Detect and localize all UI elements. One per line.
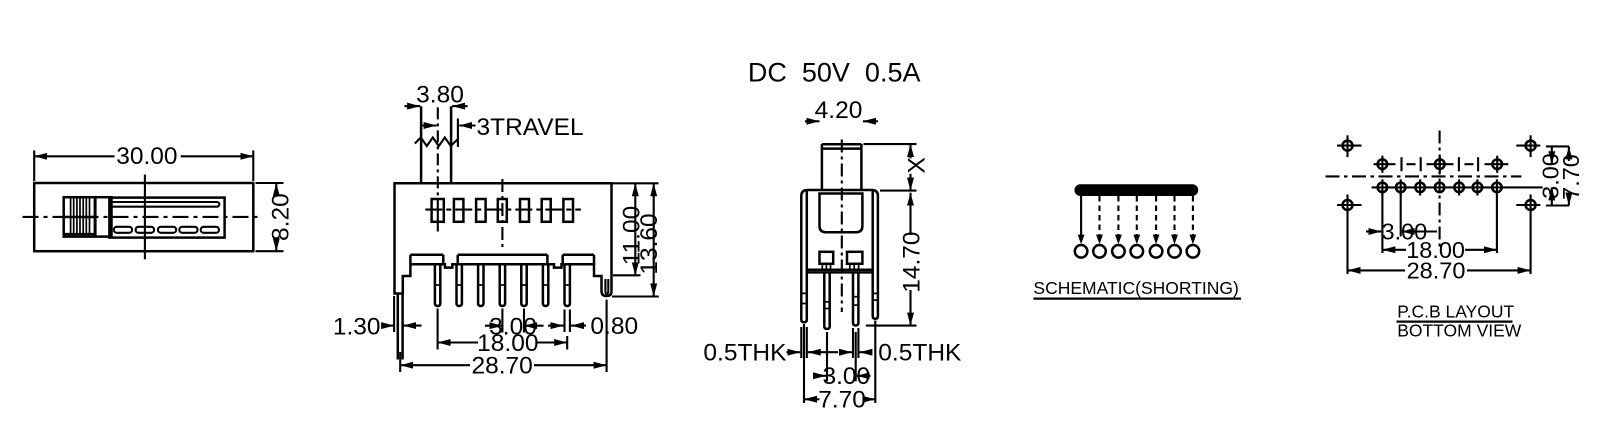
top row line and ticks <box>1374 156 1509 173</box>
body frame outer <box>801 190 878 320</box>
svg-text:0.80: 0.80 <box>590 313 638 340</box>
vertical center line <box>144 175 146 260</box>
dimension 14.70 <box>909 193 911 235</box>
svg-text:7.70: 7.70 <box>1558 154 1584 200</box>
stem break zigzag <box>415 138 458 147</box>
dimension 28.70 (pcb) <box>1348 269 1406 271</box>
svg-text:3.80: 3.80 <box>416 81 464 108</box>
svg-text:P.C.B LAYOUT: P.C.B LAYOUT <box>1397 301 1514 321</box>
knob divider <box>94 197 97 236</box>
svg-text:0.5THK: 0.5THK <box>703 339 787 366</box>
corner mounting holes <box>1343 141 1536 210</box>
dimension 13.60 <box>612 295 659 297</box>
svg-text:0.5THK: 0.5THK <box>878 339 962 366</box>
0.5THK left <box>800 327 802 358</box>
pins (side) <box>824 272 829 329</box>
bottom row line and ticks <box>1372 179 1543 195</box>
knob stem <box>420 106 423 183</box>
svg-text:8.20: 8.20 <box>268 193 295 241</box>
svg-text:DC 50V 0.5A: DC 50V 0.5A <box>748 58 921 88</box>
leg bottoms rounded <box>801 320 807 323</box>
bottom flange tops <box>410 255 594 264</box>
dimension X <box>864 143 917 145</box>
svg-text:30.00: 30.00 <box>116 143 177 170</box>
svg-text:13.60: 13.60 <box>636 213 663 274</box>
dimension 8.20 <box>256 182 284 184</box>
dimension 18.00 <box>437 309 439 350</box>
dimension 7.70 (side) <box>803 324 805 403</box>
0.5THK right <box>852 328 854 358</box>
body bottom belt <box>807 268 873 271</box>
terminal ticks <box>822 264 858 270</box>
terminal windows row <box>432 199 573 222</box>
common bar <box>1075 184 1199 196</box>
svg-text:3TRAVEL: 3TRAVEL <box>477 114 584 141</box>
windows center line <box>425 209 581 211</box>
svg-text:7.70: 7.70 <box>818 386 866 413</box>
dimension 11.00 <box>612 182 659 184</box>
bottom hole row: 7 holes <box>1378 183 1502 193</box>
svg-text:28.70: 28.70 <box>471 352 532 379</box>
knob block <box>64 197 112 236</box>
dimension 4.20 <box>805 120 820 122</box>
svg-text:SCHEMATIC(SHORTING): SCHEMATIC(SHORTING) <box>1033 278 1238 298</box>
body frame inner walls <box>806 190 809 320</box>
knob serration hatch <box>71 197 90 234</box>
track slots row <box>114 227 219 233</box>
slider track body <box>109 198 224 238</box>
travel dimension <box>421 124 437 126</box>
track top slot <box>111 202 220 207</box>
svg-text:14.70: 14.70 <box>899 231 926 292</box>
svg-text:28.70: 28.70 <box>1407 258 1466 284</box>
dimension 3.00 (side) <box>826 332 828 381</box>
switch body outline <box>34 183 253 251</box>
dimension 18.00 (pcb) <box>1496 193 1498 253</box>
body outline with bottom profile <box>395 183 612 296</box>
left mounting leg <box>397 295 400 360</box>
body vertical center line <box>501 179 503 247</box>
dimension 0.80 <box>563 310 565 333</box>
dimension 30.00 <box>33 150 35 181</box>
knob recess <box>820 194 863 233</box>
pins 1-7 <box>435 264 570 306</box>
dimension 3.00 (pcb) <box>1381 193 1383 253</box>
part center lines <box>1326 175 1522 177</box>
schematic contacts: line 1 solid, 2-7 dashed, arrows to terminals <box>1081 196 1193 236</box>
top hole row: 3 holes <box>1378 159 1502 169</box>
horizontal center line (dash-dot) <box>23 216 258 218</box>
dimension 3.00 pins <box>501 309 503 333</box>
dimension 3.00 row pitch <box>1551 146 1553 164</box>
inner terminals <box>820 252 834 264</box>
dimension 1.30 <box>393 296 395 332</box>
knob stem (side) <box>821 144 824 190</box>
pin kink ticks <box>435 284 570 286</box>
svg-text:X: X <box>904 157 931 173</box>
svg-text:4.20: 4.20 <box>815 97 863 124</box>
svg-text:BOTTOM VIEW: BOTTOM VIEW <box>1397 321 1522 341</box>
terminal circles <box>1075 245 1199 258</box>
knob inner lines <box>64 216 95 219</box>
svg-text:1.30: 1.30 <box>333 313 381 340</box>
leg and pin ticks <box>801 293 878 308</box>
bracket slot (right mounting lug) <box>605 279 608 294</box>
center line (side) <box>841 140 843 313</box>
dimension 3.80 <box>405 105 421 107</box>
knob center line <box>437 107 439 196</box>
dimension 28.70 <box>399 352 401 372</box>
dimension 7.70 (pcb) <box>1546 145 1569 147</box>
